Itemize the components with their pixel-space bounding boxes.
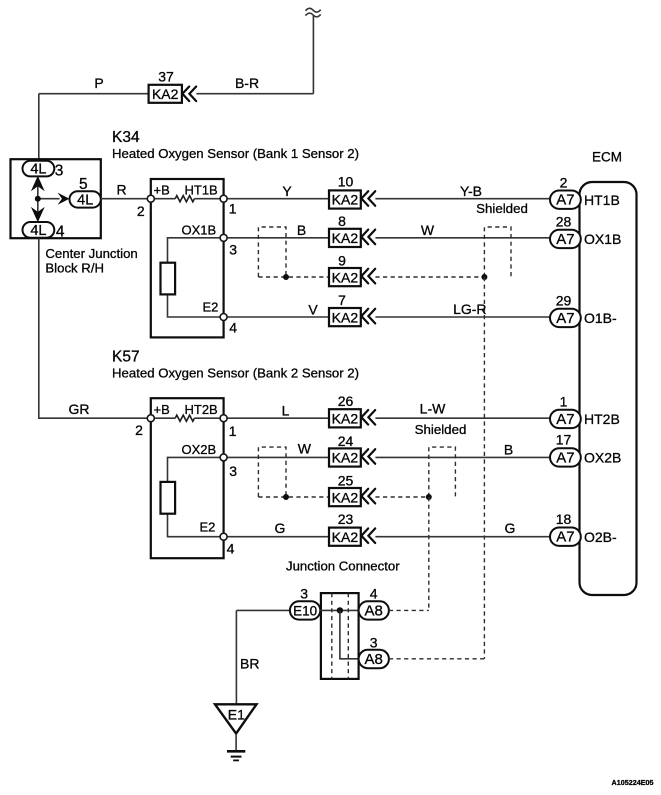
sensor element (zirconia cell) of K57: [161, 482, 176, 514]
connector arrows at KA2 26: [361, 410, 375, 425]
svg-text:1: 1: [560, 394, 568, 410]
svg-text:4: 4: [56, 224, 65, 241]
svg-text:2: 2: [560, 175, 568, 191]
heater element resistor inside K34: [151, 196, 224, 202]
junction connector KA2 (26): [329, 409, 361, 427]
svg-text:E1: E1: [228, 707, 245, 723]
svg-text:K34: K34: [112, 129, 140, 146]
svg-text:Heated Oxygen Sensor (Bank 2 S: Heated Oxygen Sensor (Bank 2 Sensor 2): [112, 366, 359, 381]
svg-text:P: P: [94, 75, 103, 91]
svg-text:HT1B: HT1B: [584, 192, 620, 208]
dashed wire from A8 pin 4 to bank 2 shield drain: [389, 609, 429, 611]
svg-text:W: W: [298, 441, 312, 457]
connector arrows at KA2 24: [361, 449, 375, 464]
wire Y: K34 pin1 to KA2 10: [224, 198, 329, 200]
svg-text:A7: A7: [556, 529, 574, 546]
connector arrows at KA2 8: [361, 230, 375, 245]
svg-text:L-W: L-W: [420, 401, 446, 417]
svg-text:Shielded: Shielded: [415, 422, 467, 437]
svg-text:Center Junction: Center Junction: [45, 246, 137, 261]
svg-text:OX2B: OX2B: [182, 442, 217, 457]
svg-text:3: 3: [229, 242, 237, 258]
svg-text:G: G: [275, 520, 286, 536]
K34 pin 1 node: [220, 195, 227, 202]
svg-text:3: 3: [229, 463, 237, 479]
junction connector KA2 (24): [329, 448, 361, 466]
junction connector KA2 (7): [329, 308, 361, 326]
svg-text:KA2: KA2: [332, 411, 359, 427]
svg-text:2: 2: [137, 203, 145, 219]
svg-text:Junction Connector: Junction Connector: [286, 559, 400, 574]
terminal E10 pin 3: [290, 601, 320, 619]
wire P: from left vertical to junction connector 37: [39, 93, 149, 95]
connector arrows at KA2 9: [361, 269, 375, 284]
svg-text:A7: A7: [556, 411, 574, 428]
svg-text:W: W: [421, 222, 435, 238]
connector arrows at KA2 7: [361, 309, 375, 324]
svg-text:E10: E10: [293, 604, 317, 619]
svg-text:GR: GR: [69, 401, 90, 417]
svg-text:KA2: KA2: [332, 450, 359, 466]
svg-text:L: L: [282, 403, 290, 419]
svg-text:8: 8: [338, 213, 346, 229]
wire through junction connector to A8 pin 4: [320, 609, 358, 611]
junction dot on shield drain (bank 2 right): [426, 494, 432, 500]
svg-text:LG-R: LG-R: [453, 301, 486, 317]
K57 pin 1 node: [220, 415, 227, 422]
shield drain dashed wire to KA2 25: [258, 496, 329, 498]
ECM terminal A7 pin 1: [550, 410, 581, 428]
svg-text:4L: 4L: [77, 193, 93, 209]
svg-text:Block R/H: Block R/H: [45, 261, 104, 276]
svg-text:B: B: [297, 222, 306, 238]
svg-text:Shielded: Shielded: [476, 201, 528, 216]
svg-text:37: 37: [158, 69, 174, 85]
center junction block R/H outline: [11, 159, 101, 238]
terminal 4L pin 4: [23, 222, 55, 239]
label: Center Junction Block R/H: [45, 246, 137, 276]
heated oxygen sensor K57 outline: [151, 398, 224, 558]
svg-text:A7: A7: [556, 192, 574, 209]
K57 pin 4 node: [220, 533, 227, 540]
terminal A8 pin 3: [359, 650, 389, 668]
sensing cell wiring inside K57: [168, 457, 224, 536]
label K34 heading: [112, 129, 359, 161]
terminal A8 pin 4: [359, 601, 389, 619]
svg-text:HT2B: HT2B: [584, 411, 620, 427]
wire R: from 4L pin 5 to K34 +B: [101, 198, 151, 200]
shield drain dashed wire from KA2 25 to right shield box: [375, 496, 428, 498]
wire B-R: from KA2 37 to squiggle feed: [196, 93, 313, 95]
svg-text:24: 24: [338, 433, 354, 449]
dashed shield drain vertical down to junction connector A8 pin 3: [483, 277, 485, 659]
svg-text:4: 4: [227, 541, 235, 557]
svg-text:A7: A7: [556, 449, 574, 466]
svg-text:A7: A7: [556, 310, 574, 327]
svg-text:KA2: KA2: [332, 529, 359, 545]
label K57 heading: [112, 349, 359, 381]
junction connector KA2 (23): [329, 528, 361, 546]
svg-text:G: G: [505, 520, 516, 536]
svg-text:17: 17: [556, 432, 572, 448]
junction connector KA2 (10): [329, 190, 361, 208]
wire W: KA2 8 to ECM OX1B: [375, 237, 551, 239]
shield drain dashed wire to KA2 9: [258, 276, 329, 278]
sensor element (zirconia cell) of K34: [161, 263, 176, 295]
svg-text:E2: E2: [203, 300, 219, 315]
svg-text:A7: A7: [556, 231, 574, 248]
shield drain dashed wire from KA2 9 to right shield box: [375, 276, 484, 278]
svg-text:23: 23: [338, 511, 354, 527]
svg-text:4L: 4L: [30, 162, 46, 178]
connector arrows at KA2 23: [361, 528, 375, 543]
terminal 4L pin 3: [23, 161, 55, 178]
wire: vertical feed from squiggle down to B-R row: [312, 15, 314, 94]
svg-text:ECM: ECM: [592, 150, 622, 165]
wire G: KA2 23 to ECM O2B-: [375, 536, 551, 538]
wire: left vertical from P row down to center junction block: [38, 94, 40, 162]
svg-text:4: 4: [229, 320, 237, 336]
internal bus of center junction block with arrows: [31, 176, 70, 223]
svg-text:K57: K57: [112, 349, 140, 366]
junction dot on shield drain (bank 1 right): [481, 274, 487, 280]
wire: from 4L pin 4 down the left side to K57 row: [39, 238, 151, 418]
svg-text:KA2: KA2: [332, 230, 359, 246]
shield box left (bank 2): [258, 447, 286, 497]
wire Y-B: KA2 10 to ECM HT1B: [375, 198, 551, 200]
svg-text:26: 26: [338, 393, 354, 409]
K57 pin 2 node: [147, 415, 154, 422]
svg-text:28: 28: [556, 214, 572, 230]
svg-text:4: 4: [370, 586, 378, 602]
svg-text:O1B-: O1B-: [584, 310, 617, 326]
svg-text:KA2: KA2: [332, 269, 359, 285]
ECM terminal A7 pin 18: [550, 528, 581, 546]
shield box left (bank 1): [258, 227, 286, 277]
svg-text:V: V: [308, 302, 318, 318]
wire G: K57 pin4 to KA2 23: [224, 536, 329, 538]
sensing cell wiring inside K34: [168, 238, 224, 317]
svg-text:KA2: KA2: [332, 192, 359, 208]
svg-text:2: 2: [135, 422, 143, 438]
K34 pin 2 node: [147, 195, 154, 202]
svg-text:7: 7: [338, 292, 346, 308]
dashed wire from A8 pin 3 to bank 1 shield drain: [389, 658, 485, 660]
svg-text:1: 1: [229, 423, 237, 439]
junction dot on shield drain (bank 1 left): [283, 274, 289, 280]
svg-text:+B: +B: [154, 183, 170, 198]
svg-text:OX1B: OX1B: [182, 223, 217, 238]
shield box right (bank 2): [429, 447, 456, 497]
svg-text:18: 18: [556, 511, 572, 527]
svg-text:A8: A8: [365, 651, 383, 668]
svg-text:OX1B: OX1B: [584, 231, 621, 247]
dashed shield drain vertical down to junction connector A8 pin 4: [428, 497, 430, 610]
svg-text:E2: E2: [200, 520, 216, 535]
junction connector KA2 (37): [149, 85, 182, 103]
connector arrows at KA2 37: [182, 87, 196, 102]
svg-text:BR: BR: [240, 656, 259, 672]
svg-text:B: B: [504, 442, 513, 458]
K34 pin 4 node: [220, 314, 227, 321]
ground point E1 triangle: [215, 704, 257, 733]
heated oxygen sensor K34 outline: [151, 179, 224, 337]
svg-text:3: 3: [300, 586, 308, 602]
svg-text:O2B-: O2B-: [584, 529, 617, 545]
wire L: K57 pin1 to KA2 26: [224, 417, 329, 419]
svg-text:3: 3: [55, 163, 64, 180]
wire BR: down to ground E1: [235, 610, 237, 704]
svg-text:+B: +B: [154, 402, 170, 417]
connector arrows at KA2 25: [361, 489, 375, 504]
svg-text:4L: 4L: [30, 223, 46, 239]
ECM outline: [580, 182, 637, 595]
junction dot inside junction connector: [337, 607, 343, 613]
shield box right (bank 1): [484, 227, 511, 277]
svg-text:OX2B: OX2B: [584, 450, 621, 466]
terminal 4L pin 5: [70, 191, 101, 208]
junction connector KA2 (25): [329, 488, 361, 506]
wire L-W: KA2 26 to ECM HT2B: [375, 417, 551, 419]
svg-text:B-R: B-R: [235, 75, 259, 91]
svg-text:29: 29: [556, 293, 572, 309]
ground symbol: [227, 734, 245, 761]
ECM terminal A7 pin 2: [550, 191, 581, 209]
wire LG-R: KA2 7 to ECM O1B-: [375, 316, 551, 318]
svg-text:Y-B: Y-B: [460, 183, 482, 199]
wire from dot down to A8 pin 3: [340, 610, 359, 658]
svg-text:10: 10: [338, 174, 354, 190]
svg-text:9: 9: [338, 252, 346, 268]
junction connector internal dashed bus bars: [332, 593, 349, 679]
junction connector KA2 (8): [329, 229, 361, 247]
ECM terminal A7 pin 17: [550, 448, 581, 466]
svg-text:KA2: KA2: [152, 86, 179, 102]
ECM terminal A7 pin 28: [550, 230, 581, 248]
heater element resistor inside K57: [151, 415, 224, 421]
svg-text:1: 1: [229, 201, 237, 217]
svg-text:25: 25: [338, 472, 354, 488]
node: supply break squiggle at top of B-R feed: [306, 8, 321, 17]
wire W: K57 pin3 to KA2 24: [224, 456, 329, 458]
ECM terminal A7 pin 29: [550, 309, 581, 327]
svg-text:Heated Oxygen Sensor (Bank 1 S: Heated Oxygen Sensor (Bank 1 Sensor 2): [112, 146, 359, 161]
svg-text:A105224E05: A105224E05: [612, 778, 654, 787]
wire B: KA2 24 to ECM OX2B: [375, 456, 551, 458]
junction connector KA2 (9): [329, 268, 361, 286]
junction dot on shield drain (bank 2 left): [283, 494, 289, 500]
svg-text:3: 3: [370, 635, 378, 651]
junction dot in center junction block: [35, 196, 41, 202]
svg-text:KA2: KA2: [332, 489, 359, 505]
connector arrows at KA2 10: [361, 191, 375, 206]
svg-text:KA2: KA2: [332, 309, 359, 325]
K57 pin 3 node: [220, 454, 227, 461]
svg-text:R: R: [116, 182, 126, 198]
junction connector block outline: [321, 593, 359, 679]
wire V: K34 pin4 to KA2 7: [224, 316, 329, 318]
svg-text:Y: Y: [282, 183, 292, 199]
wire: ground lead from BR vertical to E10: [236, 609, 290, 611]
K34 pin 3 node: [220, 234, 227, 241]
wire B: K34 pin3 to KA2 8: [224, 237, 329, 239]
svg-text:A8: A8: [365, 603, 383, 620]
